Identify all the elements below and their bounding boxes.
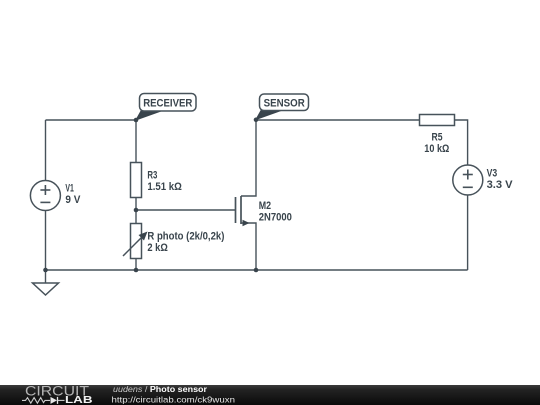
wire bottom ground rail (46, 269, 468, 271)
wire left vertical top (node to V1 +) (45, 120, 47, 181)
label V1 value (65, 183, 81, 207)
svg-text:R photo (2k/0,2k): R photo (2k/0,2k) (147, 231, 224, 243)
label R photo value (147, 231, 224, 255)
transistor M2 (236, 120, 257, 270)
svg-text:1.51 kΩ: 1.51 kΩ (147, 181, 182, 193)
svg-text:10 kΩ: 10 kΩ (424, 143, 449, 155)
svg-text:2N7000: 2N7000 (259, 211, 292, 223)
wire ground stub (45, 270, 47, 283)
svg-text:RECEIVER: RECEIVER (143, 98, 192, 110)
junction ground rail at V1 (43, 268, 48, 273)
node flag SENSOR (256, 94, 309, 120)
svg-text:http://circuitlab.com/ck9wuxn: http://circuitlab.com/ck9wuxn (112, 395, 236, 405)
photoresistor R photo (123, 224, 148, 259)
label M2 value (259, 200, 292, 224)
CircuitLab logo (22, 384, 93, 405)
svg-text:9 V: 9 V (65, 194, 81, 206)
junction R3/Rphoto/gate node (134, 208, 139, 213)
svg-text:SENSOR: SENSOR (264, 98, 305, 110)
wire R3 bottom to mid node (135, 198, 137, 211)
wire left vertical bottom (V1 - to ground rail) (45, 211, 47, 271)
wire top-left horizontal V1 to RECEIVER node (46, 119, 137, 121)
wire RECEIVER node down to R3 (135, 120, 137, 163)
footer credit text (112, 384, 236, 405)
wire R photo bottom to ground rail (135, 259, 137, 271)
wire mid node down to R photo (135, 210, 137, 224)
junction SENSOR node (254, 118, 259, 123)
voltage source V3 (453, 165, 483, 195)
label R3 value (147, 170, 182, 193)
label R5 value (424, 132, 449, 156)
svg-text:LAB: LAB (65, 395, 93, 405)
junction ground rail at M2 source (254, 268, 259, 273)
resistor R5 (420, 115, 455, 126)
svg-text:R5: R5 (432, 132, 443, 144)
resistor R3 (131, 163, 142, 198)
wire V3 bottom to ground rail (467, 196, 469, 271)
svg-text:uudens / Photo sensor: uudens / Photo sensor (113, 384, 208, 394)
svg-text:3.3 V: 3.3 V (487, 179, 514, 191)
label V3 value (487, 168, 514, 192)
svg-text:V1: V1 (65, 183, 74, 195)
svg-text:M2: M2 (259, 200, 271, 212)
junction ground rail at R photo (134, 268, 139, 273)
voltage source V1 (30, 181, 60, 211)
junction RECEIVER node (134, 118, 139, 123)
ground (33, 283, 59, 295)
svg-text:V3: V3 (487, 168, 498, 180)
wire R5 right to corner and down to V3 (455, 120, 468, 165)
wire SENSOR node to R5 left (256, 119, 420, 121)
svg-text:2 kΩ: 2 kΩ (147, 242, 168, 254)
footer bar (0, 385, 540, 405)
node flag RECEIVER (136, 94, 196, 121)
wire mid node to M2 gate (136, 209, 236, 211)
